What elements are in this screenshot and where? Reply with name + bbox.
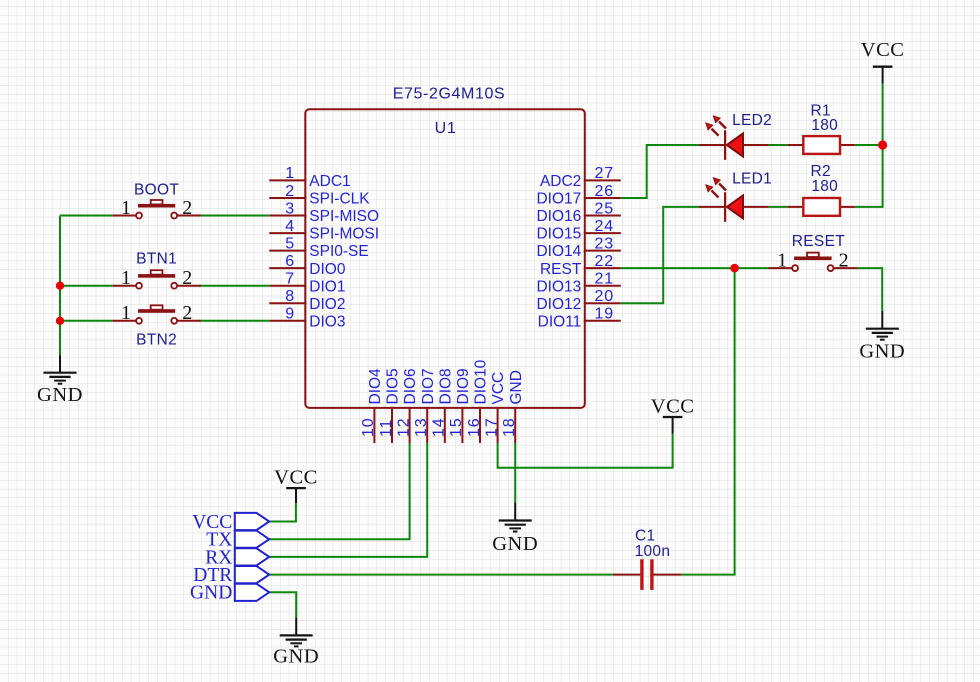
svg-text:13: 13 — [413, 418, 430, 437]
svg-text:BTN2: BTN2 — [136, 332, 177, 349]
svg-text:12: 12 — [395, 418, 412, 437]
svg-text:2: 2 — [182, 302, 192, 324]
svg-text:BTN1: BTN1 — [136, 251, 177, 268]
svg-text:BOOT: BOOT — [134, 182, 179, 199]
svg-text:1: 1 — [121, 267, 131, 289]
svg-text:19: 19 — [595, 306, 614, 323]
svg-text:25: 25 — [595, 200, 614, 217]
svg-text:ADC2: ADC2 — [540, 173, 581, 190]
svg-text:180: 180 — [811, 117, 838, 134]
svg-text:DIO10: DIO10 — [473, 359, 490, 404]
svg-text:5: 5 — [285, 235, 295, 252]
svg-text:LED1: LED1 — [732, 171, 772, 188]
svg-text:DIO0: DIO0 — [309, 261, 346, 278]
svg-text:2: 2 — [182, 267, 192, 289]
svg-text:4: 4 — [285, 218, 295, 235]
svg-text:DIO1: DIO1 — [309, 278, 345, 295]
svg-text:DIO17: DIO17 — [536, 191, 581, 208]
svg-text:DIO7: DIO7 — [420, 368, 437, 404]
svg-text:GND: GND — [508, 370, 525, 404]
svg-text:DIO4: DIO4 — [367, 368, 384, 405]
svg-text:2: 2 — [182, 197, 192, 219]
svg-text:SPI0-SE: SPI0-SE — [309, 243, 368, 260]
svg-text:E75-2G4M10S: E75-2G4M10S — [393, 86, 505, 103]
svg-text:SPI-CLK: SPI-CLK — [309, 191, 370, 208]
svg-text:C1: C1 — [635, 527, 655, 544]
svg-text:VCC: VCC — [490, 372, 507, 405]
svg-text:DIO8: DIO8 — [437, 368, 454, 404]
svg-text:DIO15: DIO15 — [536, 226, 581, 243]
svg-text:GND: GND — [859, 340, 905, 362]
svg-text:20: 20 — [595, 288, 614, 305]
svg-text:23: 23 — [595, 235, 614, 252]
svg-text:GND: GND — [37, 384, 83, 406]
svg-text:1: 1 — [121, 302, 131, 324]
svg-text:16: 16 — [466, 418, 483, 437]
svg-text:VCC: VCC — [651, 395, 695, 417]
svg-text:DIO9: DIO9 — [455, 368, 472, 404]
svg-text:ADC1: ADC1 — [309, 173, 350, 190]
svg-text:10: 10 — [360, 418, 377, 437]
svg-text:VCC: VCC — [861, 39, 905, 61]
svg-text:6: 6 — [285, 253, 295, 270]
svg-text:3: 3 — [285, 200, 295, 217]
svg-text:11: 11 — [378, 419, 395, 437]
svg-text:100n: 100n — [635, 543, 671, 560]
svg-text:U1: U1 — [435, 120, 457, 137]
svg-text:DIO16: DIO16 — [536, 208, 581, 225]
svg-text:22: 22 — [595, 253, 614, 270]
svg-text:21: 21 — [595, 271, 614, 288]
svg-text:7: 7 — [285, 271, 295, 288]
svg-text:VCC: VCC — [274, 466, 318, 488]
svg-text:SPI-MOSI: SPI-MOSI — [309, 226, 379, 243]
svg-text:1: 1 — [121, 197, 131, 219]
svg-text:24: 24 — [595, 218, 614, 235]
svg-text:DIO12: DIO12 — [536, 296, 581, 313]
svg-text:RESET: RESET — [792, 233, 845, 250]
svg-text:DIO2: DIO2 — [309, 296, 345, 313]
svg-text:DIO6: DIO6 — [402, 368, 419, 404]
svg-text:GND: GND — [273, 646, 319, 668]
svg-text:15: 15 — [448, 418, 465, 437]
svg-text:DIO13: DIO13 — [536, 278, 581, 295]
svg-text:26: 26 — [595, 183, 614, 200]
svg-text:GND: GND — [492, 533, 538, 555]
svg-text:9: 9 — [285, 306, 295, 323]
svg-text:180: 180 — [811, 178, 838, 195]
svg-text:8: 8 — [285, 288, 295, 305]
svg-text:18: 18 — [501, 418, 518, 437]
svg-text:14: 14 — [431, 418, 448, 437]
svg-text:17: 17 — [483, 418, 500, 437]
svg-text:27: 27 — [595, 165, 614, 182]
svg-text:1: 1 — [285, 165, 295, 182]
svg-text:LED2: LED2 — [732, 112, 772, 129]
svg-text:REST: REST — [540, 261, 582, 278]
svg-text:DIO3: DIO3 — [309, 313, 345, 330]
svg-text:DIO5: DIO5 — [385, 368, 402, 404]
svg-text:2: 2 — [285, 183, 295, 200]
svg-text:GND: GND — [190, 583, 232, 604]
svg-text:DIO11: DIO11 — [538, 313, 582, 330]
svg-text:DIO14: DIO14 — [536, 243, 581, 260]
svg-text:2: 2 — [839, 250, 849, 272]
svg-text:SPI-MISO: SPI-MISO — [309, 208, 379, 225]
svg-text:1: 1 — [777, 250, 787, 272]
